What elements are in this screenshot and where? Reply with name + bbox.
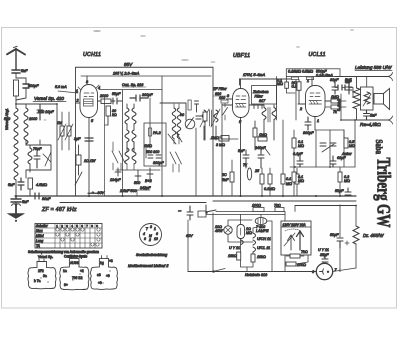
- svg-text:800pF: 800pF: [303, 131, 314, 135]
- svg-text:500: 500: [4, 117, 11, 121]
- svg-text:Versel Sp. 420: Versel Sp. 420: [34, 96, 64, 101]
- svg-text:5–8mA: 5–8mA: [337, 99, 341, 111]
- 50uF cap on bus right: [345, 188, 351, 195]
- resistor 0.1M below box left: [285, 77, 295, 94]
- switch table: [35, 224, 102, 249]
- tube UCL11: [298, 78, 331, 130]
- coil blob 2: [60, 256, 89, 290]
- svg-text:ZF = 487 kHz: ZF = 487 kHz: [41, 207, 77, 213]
- svg-text:0.1: 0.1: [286, 177, 291, 181]
- svg-text:1: 1: [317, 119, 319, 123]
- svg-text:Leistung 588 U/W: Leistung 588 U/W: [355, 65, 392, 70]
- wire y167: [290, 166, 355, 168]
- speaker: [374, 94, 384, 105]
- right side verticals: [344, 120, 355, 167]
- svg-text:+2: +2: [80, 269, 84, 273]
- svg-text:300pF: 300pF: [153, 161, 164, 165]
- svg-text:60µF: 60µF: [337, 156, 346, 160]
- svg-text:4: 4: [98, 86, 100, 90]
- svg-text:70pF: 70pF: [33, 147, 42, 151]
- svg-text:Versel Sp.: Versel Sp.: [38, 255, 53, 259]
- svg-text:2F2: 2F2: [38, 269, 44, 273]
- 50uF cap with +: [337, 238, 349, 248]
- cap 300pF: [130, 95, 148, 101]
- svg-text:+9: +9: [106, 274, 110, 278]
- capacitor 80nF on bus: [35, 193, 51, 201]
- resistors 0.1M 0.2M bottom right: [292, 167, 342, 196]
- svg-text:100: 100: [219, 96, 226, 100]
- lamp 10 Ohm 40W: [224, 226, 232, 234]
- resistor 30k: [106, 106, 111, 125]
- svg-text:M: M: [149, 234, 152, 238]
- svg-text:817: 817: [259, 99, 266, 103]
- svg-text:2000: 2000: [99, 94, 109, 98]
- svg-text:18kΩ: 18kΩ: [257, 255, 266, 259]
- svg-text:Sockelbeleuchtung: Sockelbeleuchtung: [136, 253, 168, 257]
- svg-text:4.5MΩ: 4.5MΩ: [36, 183, 47, 187]
- svg-text:5nF: 5nF: [238, 149, 245, 153]
- svg-text:50µF: 50µF: [330, 233, 339, 237]
- svg-text:5nF: 5nF: [222, 178, 229, 182]
- svg-text:50pF: 50pF: [112, 92, 121, 96]
- svg-text:2.5nF 500: 2.5nF 500: [119, 189, 137, 193]
- svg-text:U/CH 11: U/CH 11: [257, 237, 271, 241]
- wires inside osc box verticals: [122, 90, 124, 196]
- tube UCH11: [76, 76, 101, 196]
- resistor 2000 grid: [101, 99, 115, 104]
- svg-text:3 MΩ: 3 MΩ: [216, 143, 225, 147]
- capacitor 5nF antenna: [12, 70, 20, 78]
- svg-text:3a: 3a: [43, 274, 47, 278]
- svg-text:TA: TA: [36, 244, 40, 248]
- label Leistung: [355, 65, 392, 71]
- components row y140-190 under UBF: [221, 136, 299, 197]
- IF transformer 2 coils: [255, 105, 276, 140]
- svg-text:U Y 11: U Y 11: [229, 246, 240, 250]
- UY11 heater outline: [237, 225, 245, 239]
- svg-text:ZF Filter: ZF Filter: [212, 87, 227, 91]
- components left of UBF: [221, 100, 228, 120]
- resistor 100 below: [286, 262, 296, 266]
- svg-text:Dr. 455/W: Dr. 455/W: [363, 233, 384, 238]
- svg-text:1MΩ: 1MΩ: [144, 144, 152, 148]
- socket circle: [140, 224, 162, 246]
- svg-text:MΩ: MΩ: [277, 82, 283, 86]
- top right box 0.18 0.5: [286, 69, 340, 80]
- svg-text:Lang: Lang: [36, 239, 43, 243]
- svg-text:a8: a8: [97, 273, 101, 277]
- resistor 7k on heater rail: [274, 204, 284, 212]
- svg-text:2000: 2000: [28, 117, 38, 121]
- capacitor 500pF parallel: [16, 78, 29, 100]
- svg-text:170V, 5–9mA: 170V, 5–9mA: [243, 73, 266, 77]
- svg-text:706 B2: 706 B2: [72, 276, 83, 280]
- svg-text:195 V, 2.6–9mA: 195 V, 2.6–9mA: [113, 72, 140, 76]
- svg-text:Saba: Saba: [374, 140, 384, 155]
- svg-text:80nF: 80nF: [42, 197, 51, 201]
- svg-text:7k: 7k: [243, 163, 247, 167]
- svg-text:7kΩ: 7kΩ: [301, 250, 308, 254]
- svg-text:4: 4: [143, 232, 145, 236]
- wire 170V: [240, 73, 297, 85]
- svg-text:0.1: 0.1: [292, 85, 297, 89]
- svg-text:MΩ: MΩ: [298, 179, 304, 183]
- svg-text:1Ω 1W: 1Ω 1W: [84, 159, 96, 163]
- svg-text:5nF: 5nF: [22, 200, 29, 204]
- svg-text:500 300: 500 300: [146, 150, 160, 154]
- input coil 500: [14, 104, 18, 196]
- label Versel Sp. 420: [33, 96, 66, 102]
- svg-text:7kΩ: 7kΩ: [274, 204, 281, 208]
- svg-text:40W: 40W: [215, 229, 223, 233]
- svg-text:300pF: 300pF: [142, 93, 153, 97]
- svg-text:340pF: 340pF: [255, 146, 266, 150]
- mid-left tuned circuit cluster: [26, 140, 51, 178]
- resistor 100 on heater rail: [252, 204, 264, 212]
- svg-text:134pF: 134pF: [110, 178, 121, 182]
- 800pF cap: [305, 117, 311, 130]
- svg-text:AUS6: AUS6: [70, 261, 79, 265]
- capacitor 10pF: [37, 104, 43, 120]
- svg-text:0.1µF: 0.1µF: [293, 152, 303, 156]
- caps pair on left wire: [338, 85, 349, 90]
- svg-text:50µF: 50µF: [335, 189, 344, 193]
- capacitor 5nF left: [18, 178, 24, 190]
- svg-text:Zwischen: Zwischen: [252, 90, 269, 94]
- svg-text:10: 10: [154, 237, 158, 241]
- svg-text:Schalterspannzeichnung von Au: Schalterspannzeichnung von Außenseite ge…: [28, 250, 99, 254]
- svg-text:60V: 60V: [186, 234, 193, 238]
- svg-text:5.9 mA: 5.9 mA: [55, 85, 67, 89]
- svg-text:0.1MΩ: 0.1MΩ: [264, 187, 275, 191]
- svg-text:Filter: Filter: [255, 95, 264, 99]
- svg-text:Ra=4,5kΩ: Ra=4,5kΩ: [360, 122, 381, 127]
- choke Dr.455: [353, 226, 359, 268]
- svg-text:85V: 85V: [124, 62, 133, 67]
- wire horizontal y104: [16, 103, 57, 105]
- ground symbol: [8, 204, 25, 222]
- svg-text:U/CL 11: U/CL 11: [257, 246, 270, 250]
- svg-text:B+2: B+2: [145, 179, 152, 183]
- svg-text:3: 3: [150, 225, 152, 229]
- svg-text:—+—90V: —+—90V: [87, 191, 105, 195]
- svg-text:b 7a: b 7a: [34, 279, 41, 283]
- arrow 5.9mA: [55, 85, 78, 93]
- resistor 4.5 MOhm: [28, 178, 33, 196]
- svg-text:0.18MΩ 0.5MΩ: 0.18MΩ 0.5MΩ: [288, 69, 313, 73]
- coil: [28, 148, 32, 164]
- label Zwischen Filter 817 box: [252, 77, 277, 121]
- svg-text:kΩ: kΩ: [112, 113, 117, 117]
- netztrafo box: [281, 221, 311, 255]
- IF transformer 1: [160, 100, 220, 144]
- svg-text:PA.2: PA.2: [153, 131, 161, 135]
- svg-text:500pF: 500pF: [28, 84, 39, 88]
- output transformer + speaker: [335, 73, 393, 125]
- svg-text:2: 2: [76, 99, 79, 103]
- switch contacts row: [112, 148, 182, 164]
- capacitor 5nF to ground: [11, 196, 21, 206]
- long verticals mid: [221, 104, 223, 196]
- wires trafo: [285, 255, 308, 272]
- svg-text:1: 1: [76, 89, 78, 93]
- svg-text:Osz. Sp. 816: Osz. Sp. 816: [122, 83, 144, 87]
- svg-text:5nF: 5nF: [370, 114, 377, 118]
- svg-text:Triberg GW: Triberg GW: [373, 158, 394, 228]
- transformer box: [361, 87, 374, 110]
- caps 0.1uF 60uF: [297, 156, 336, 167]
- trimmer arrows: [43, 152, 51, 166]
- field coil zigzag: [353, 88, 360, 109]
- volume pot cluster: [292, 130, 348, 167]
- svg-text:7: 7: [146, 227, 148, 231]
- resistors 1MOhm pair left of tube: [58, 112, 73, 150]
- heater coils chain: [241, 233, 256, 254]
- bottom caps cluster: [115, 168, 153, 182]
- svg-text:1a: 1a: [63, 269, 67, 273]
- svg-text:Mittel: Mittel: [36, 234, 44, 238]
- svg-text:U Y 11: U Y 11: [318, 248, 329, 252]
- resistor 3M bottom of box: [210, 137, 238, 141]
- label ZF Filter 820: [212, 87, 228, 96]
- svg-text:UBF11: UBF11: [233, 53, 250, 59]
- svg-text:120V 220V 10A: 120V 220V 10A: [283, 223, 307, 227]
- svg-text:1g: 1g: [100, 261, 104, 265]
- svg-text:Schalter: Schalter: [36, 224, 49, 228]
- svg-text:1: 1: [307, 79, 309, 83]
- svg-text:5nF: 5nF: [21, 69, 28, 73]
- svg-text:UCL11: UCL11: [309, 52, 326, 58]
- scan smudges: [44, 29, 355, 120]
- osc coils: [125, 104, 136, 152]
- svg-text:0.1/0.5mA: 0.1/0.5mA: [316, 73, 333, 77]
- wire x57 vertical: [56, 104, 58, 196]
- tube UBF11: [222, 79, 255, 196]
- svg-text:MΩ: MΩ: [298, 144, 304, 148]
- svg-text:+3: +3: [109, 259, 113, 263]
- oscillator box: [76, 67, 214, 196]
- cap 5nF bottom: [364, 110, 370, 120]
- svg-text:MΩ: MΩ: [344, 179, 350, 183]
- svg-text:5C: 5C: [222, 173, 227, 177]
- svg-text:100Ω: 100Ω: [252, 204, 261, 208]
- svg-text:2MΩ: 2MΩ: [210, 136, 219, 140]
- resistor 1500: [14, 80, 19, 104]
- switch top: [198, 205, 216, 217]
- cap at 190,213: [187, 206, 193, 220]
- svg-text:Netztrafo 818: Netztrafo 818: [245, 273, 268, 277]
- svg-text:Oszillator-Spule: Oszillator-Spule: [64, 255, 87, 259]
- svg-text:18kΩ: 18kΩ: [228, 254, 237, 258]
- svg-text:Meßinstrument Multavi II: Meßinstrument Multavi II: [128, 264, 168, 268]
- svg-text:342pF: 342pF: [140, 186, 151, 190]
- main ground bus: [15, 195, 356, 197]
- resistor 7k below trafo: [286, 254, 304, 258]
- svg-text:LAMPE: LAMPE: [256, 229, 269, 233]
- svg-text:2: 2: [299, 107, 302, 111]
- svg-text:1MΩ: 1MΩ: [259, 133, 267, 137]
- svg-text:5nF: 5nF: [345, 80, 352, 84]
- label Osz. Sp. 816: [122, 83, 146, 87]
- svg-text:5nF: 5nF: [8, 183, 15, 187]
- right of UBF resistors cluster: [203, 112, 257, 150]
- cap 3uF below tube: [85, 138, 93, 141]
- 18k resistors: [237, 252, 241, 260]
- svg-text:+0: +0: [98, 281, 102, 285]
- wires heater area: [212, 213, 214, 272]
- caps right of UCL: [332, 82, 352, 94]
- svg-text:3µF: 3µF: [74, 137, 81, 141]
- coil 2000 secondary: [24, 104, 28, 145]
- svg-text:2: 2: [148, 238, 151, 242]
- svg-text:MΩ: MΩ: [349, 144, 355, 148]
- switch bottom: [213, 269, 225, 273]
- cap 50pF: [111, 98, 122, 104]
- coil blob 1: [28, 259, 56, 289]
- lower right rails: [295, 205, 356, 207]
- svg-text:1MΩ: 1MΩ: [331, 95, 339, 99]
- svg-text:Kurz: Kurz: [36, 229, 43, 233]
- antenna: [7, 46, 25, 70]
- svg-text:8+: 8+: [64, 283, 68, 287]
- coil blob 3: [91, 256, 118, 290]
- vertical wire to output: [340, 94, 342, 120]
- resistor 50k below box: [297, 80, 301, 104]
- resistor 1W below: [75, 145, 82, 185]
- svg-text:UCH11: UCH11: [83, 52, 101, 58]
- capacitor 70pF: [34, 152, 40, 168]
- svg-text:MΩ: MΩ: [246, 231, 252, 235]
- svg-text:500: 500: [134, 181, 141, 185]
- primary zigzag: [364, 92, 370, 104]
- svg-text:6: 6: [156, 232, 158, 236]
- svg-text:MΩ: MΩ: [286, 182, 292, 186]
- skalenlampe oval: [255, 217, 267, 224]
- resistors 1M 7k right of UCL: [325, 99, 346, 109]
- svg-text:30pF: 30pF: [330, 78, 339, 82]
